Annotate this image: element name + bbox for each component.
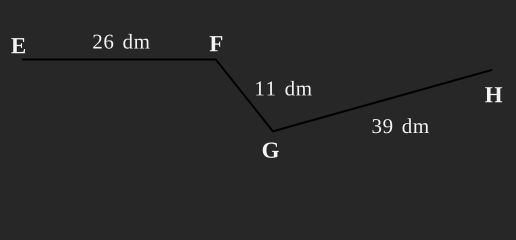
label 39 dm [373,118,429,133]
node G [263,142,279,157]
label 11 dm [256,81,312,96]
node F [210,36,223,51]
node E [11,38,25,53]
node H [485,87,502,102]
wire polyline E-F-G-H [22,60,492,132]
label 26 dm [93,34,149,49]
